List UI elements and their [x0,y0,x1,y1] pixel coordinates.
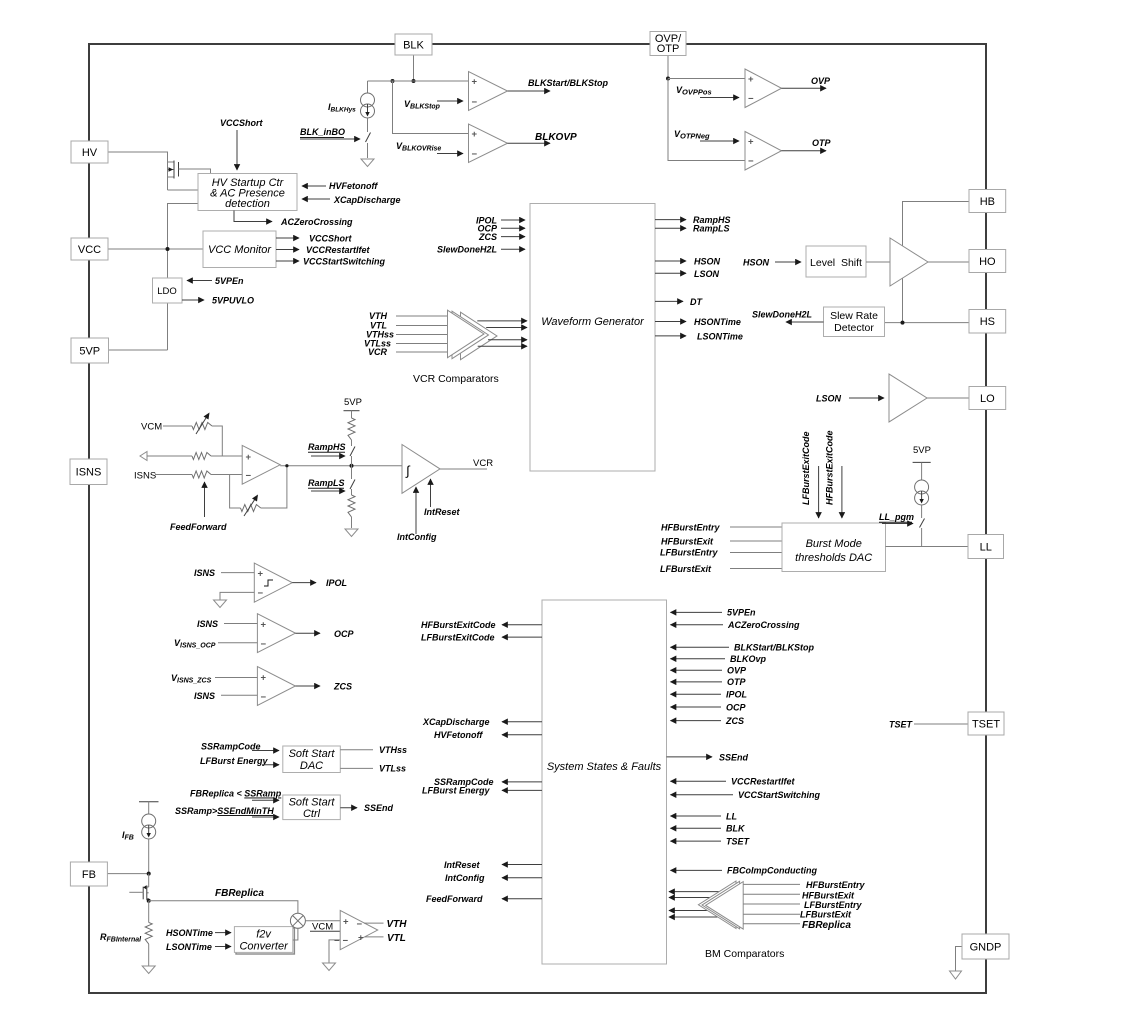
VCR comparator outputs to waveform generator [477,321,527,346]
svg-text:OCP: OCP [334,629,355,639]
svg-text:Soft Start: Soft Start [289,748,336,760]
resistor upper divider [348,418,355,440]
wire IPOL minus to ground [220,592,254,600]
wire FBReplica to multiplier [149,888,298,913]
pin 5VP [71,338,109,363]
svg-text:5VP: 5VP [344,397,362,408]
input LFBurstExit to DAC [660,564,782,574]
input FBCoImpConducting (right) [671,866,818,876]
input FBReplica < SSRamp [190,789,282,801]
ground GNDP [950,971,962,979]
input LFBurst Energy [200,756,279,766]
pin OVP/OTP [650,32,686,56]
svg-text:−: − [258,588,264,599]
svg-text:Waveform Generator: Waveform Generator [541,316,645,328]
output XCapDischarge (left) [422,717,542,727]
resistor VCM (variable) [192,413,212,435]
label LSON to LO driver [816,394,884,404]
svg-text:HFBurstExit: HFBurstExit [661,537,714,547]
svg-text:DAC: DAC [300,760,323,772]
input SlewDoneH2L [437,245,525,255]
svg-text:RampLS: RampLS [308,478,345,488]
svg-text:OTP: OTP [657,43,680,55]
wire multiplier to VTH/VTL amp [305,920,340,922]
block LDO [153,278,183,303]
node FBReplica [147,899,151,903]
svg-text:VCR: VCR [368,347,388,357]
svg-text:LFBurstExitCode: LFBurstExitCode [801,431,811,505]
output FeedForward (left) [426,894,542,904]
BM comparator outputs to system block [669,892,738,917]
ground (R_FBinternal) [142,966,155,974]
label ISNS net [134,471,156,482]
svg-text:VOVPPos: VOVPPos [676,85,712,97]
svg-text:IntConfig: IntConfig [445,873,485,883]
amp VTH/VTL [334,910,378,949]
label VCM [141,422,162,433]
input LFBurstEntry to DAC [660,548,782,558]
svg-text:ISNS: ISNS [194,568,215,578]
BM comparator input FBReplica [743,920,851,931]
svg-text:VOTPNeg: VOTPNeg [674,129,710,141]
svg-text:FB: FB [82,869,96,881]
label V_OTPNeg with arrow [674,129,739,141]
svg-text:HV: HV [82,147,98,159]
svg-text:IntReset: IntReset [424,507,461,517]
input OTP (right) [671,677,747,687]
svg-text:Slew Rate: Slew Rate [830,310,878,322]
svg-text:FBCoImpConducting: FBCoImpConducting [727,866,817,876]
label LFBurstExitCode vertical arrow into DAC [801,431,819,518]
rail bar FB current source [139,802,159,814]
output RampHS [655,215,731,225]
svg-text:OTP: OTP [812,138,831,148]
input LSONTime [166,942,231,952]
svg-text:VCCShort: VCCShort [309,234,353,244]
wire HV pin to transistor [108,152,168,162]
svg-text:5VPEn: 5VPEn [215,276,244,286]
wire driver to HB [903,202,970,246]
BM comparator input LFBurstExit [743,909,852,919]
wire node to OVP comparator plus [668,78,745,80]
output OCP [295,629,354,639]
pin BLK [395,34,432,55]
switch BLK_inBO [366,133,371,159]
VCR comparator input VCR [368,347,460,357]
svg-text:VTHss: VTHss [379,745,407,755]
block Waveform Generator [530,204,655,472]
block Level Shift [806,246,866,277]
svg-text:LSONTime: LSONTime [166,942,212,952]
label 5VP rail (LL) [913,445,931,462]
svg-text:ISNS: ISNS [134,471,156,482]
svg-text:ACZeroCrossing: ACZeroCrossing [280,217,353,227]
block VCC Monitor [203,231,276,268]
input BLK (right) [671,824,746,834]
wire f2v to multiplier [293,928,298,940]
VCR comparator input VTHss [366,330,460,340]
svg-text:BLKOvp: BLKOvp [730,654,767,664]
input ZCS [478,232,525,242]
svg-text:5VP: 5VP [79,345,100,357]
svg-text:Burst Mode: Burst Mode [806,538,862,550]
wire BLK node down to BLKOVP comparator [393,81,469,134]
svg-text:HSON: HSON [694,257,721,267]
block System States & Faults [542,600,667,964]
input HFBurstEntry to DAC [661,523,782,533]
pin VCC [71,238,108,260]
svg-text:−: − [334,935,340,946]
svg-text:BLK: BLK [403,39,424,51]
svg-text:ISNS: ISNS [194,691,215,701]
output SSEnd [667,752,749,762]
svg-text:BLKOVP: BLKOVP [535,132,577,143]
svg-text:VCCRestartIfet: VCCRestartIfet [731,777,796,787]
wire level shift to driver [866,261,890,263]
current source I_FB [122,814,156,842]
svg-text:LO: LO [980,393,995,405]
svg-text:−: − [261,692,267,703]
output VTLss [340,764,406,774]
input OCP (right) [671,702,747,712]
output SSRampCode (left) [434,777,542,787]
output OVP [782,76,832,88]
svg-text:LL_pgm: LL_pgm [879,512,914,522]
svg-text:SlewDoneH2L: SlewDoneH2L [437,245,497,255]
switch LL_pgm [920,505,925,547]
label 5VP rail (ramp divider) [344,397,362,411]
output HFBurstExitCode (left) [421,620,542,630]
svg-text:LFBurstEntry: LFBurstEntry [660,548,718,558]
pin TSET [968,712,1004,735]
svg-text:BLK_inBO: BLK_inBO [300,127,345,137]
transistor Q1 HV FET [168,161,211,191]
output IntConfig (left) [445,873,542,883]
svg-text:VTH: VTH [387,919,408,930]
VCR comparator input VTH [369,311,460,321]
svg-text:Detector: Detector [834,322,874,334]
output ZCS [295,682,352,692]
svg-text:RampHS: RampHS [308,442,346,452]
op-amp U_ISNS [242,445,280,484]
svg-text:SSEnd: SSEnd [364,803,394,813]
input ZCS (right) [671,716,745,726]
pin FB [70,862,107,886]
block Soft Start DAC [283,746,341,773]
svg-text:LSONTime: LSONTime [697,331,743,341]
output HSON [655,257,721,267]
pin HO [969,250,1006,273]
pin HS [969,310,1006,334]
label 5VPEn input to LDO [187,276,244,286]
ground (BLK divider) [361,159,374,167]
output IPOL [292,578,347,588]
wire to current source [367,81,369,93]
input HSONTime [166,928,231,938]
svg-text:HFBurstEntry: HFBurstEntry [661,523,720,533]
svg-text:BLKStart/BLKStop: BLKStart/BLKStop [734,643,814,653]
label V_ISNS_OCP to OCP minus [174,638,257,650]
input ACZeroCrossing (right) [671,620,801,630]
svg-text:FeedForward: FeedForward [426,894,483,904]
output VCR [440,458,493,469]
wire ISNS to resistor [155,474,192,476]
BM comparator input HFBurstExit [743,891,855,901]
svg-text:LDO: LDO [157,286,177,297]
svg-text:+: + [258,569,264,580]
block f2v Converter [234,927,294,954]
svg-text:−: − [343,935,349,946]
wire 5VP pin to rail [109,349,168,351]
switch RampLS [350,466,355,495]
wire VCC pin to monitor [108,247,203,251]
label ISNS to OCP plus [197,619,257,629]
svg-text:+: + [748,74,754,85]
comparator BLKOVP [469,124,508,163]
svg-text:+: + [343,917,349,928]
svg-text:−: − [261,639,267,650]
svg-text:SSRampCode: SSRampCode [201,742,261,752]
svg-text:ZCS: ZCS [333,682,352,692]
label VCM input [310,922,340,933]
svg-text:VCM: VCM [141,422,162,433]
svg-text:LFBurstExit: LFBurstExit [660,564,712,574]
output OTP [782,138,832,151]
svg-text:5VP: 5VP [913,445,931,456]
input TSET (right) [671,836,751,846]
svg-text:ISNS: ISNS [197,619,218,629]
input BLKOvp (right) [671,654,767,664]
wire transistor to HV Startup block [168,189,199,191]
svg-text:−: − [472,149,478,160]
pin LO [969,387,1006,410]
svg-text:IPOL: IPOL [326,578,347,588]
pin GNDP [962,934,1009,959]
BM comparator input HFBurstEntry [743,880,865,890]
output VCCRestartIfet [276,245,371,255]
svg-text:5VPUVLO: 5VPUVLO [212,296,254,306]
wire driver to HO [928,261,969,263]
wire node to OTP comparator minus [668,79,745,161]
svg-text:FBReplica: FBReplica [802,920,851,931]
current source I_BLKHys [328,93,375,118]
block Soft Start Ctrl [283,795,341,820]
output VTHss [340,745,407,755]
wire VCM to resistor [163,425,192,427]
integrator U_int [402,445,440,494]
svg-text:LFBurstExitCode: LFBurstExitCode [421,632,495,642]
input OVP (right) [671,666,748,676]
comparator OCP [257,614,295,653]
label IntConfig arrow [397,487,437,542]
wire amp minus to ground [329,940,340,963]
output SSEnd (soft start ctrl) [340,803,393,813]
wire resistor to opamp minus [211,474,242,476]
svg-text:SlewDoneH2L: SlewDoneH2L [752,310,812,320]
svg-text:FBReplica < SSRamp: FBReplica < SSRamp [190,789,282,799]
output IntReset (left) [444,860,542,870]
svg-text:XCapDischarge: XCapDischarge [333,195,401,205]
svg-text:VCR Comparators: VCR Comparators [413,373,499,385]
wire current source to FB node [148,839,150,874]
label HFBurstExitCode vertical arrow into DAC [825,430,842,518]
svg-text:VCCStartSwitching: VCCStartSwitching [738,790,821,800]
svg-text:Level Shift: Level Shift [810,257,862,269]
block Burst Mode thresholds DAC [782,523,886,572]
svg-text:HSONTime: HSONTime [166,928,213,938]
svg-text:IntConfig: IntConfig [397,532,437,542]
svg-text:LSON: LSON [816,394,842,404]
resistor ISNS input [192,471,211,478]
output VTL [365,933,406,944]
svg-text:HS: HS [980,316,995,328]
output 5VPUVLO [182,296,254,306]
svg-text:FBReplica: FBReplica [215,888,264,899]
svg-text:HFBurstExitCode: HFBurstExitCode [825,430,835,505]
comparator IPOL [254,563,292,602]
input SSRamp>SSEndMinTH [175,806,279,817]
transistor Q2 FB replica [129,874,148,901]
wire opamp output [280,464,402,468]
svg-text:Converter: Converter [239,941,289,953]
input IPOL (right) [671,690,748,700]
svg-text:DT: DT [690,297,703,307]
resistor lower divider [348,495,355,528]
driver LO buffer [889,374,927,422]
svg-text:ACZeroCrossing: ACZeroCrossing [727,620,800,630]
svg-text:OVP: OVP [727,666,747,676]
output HSONTime [655,317,741,327]
pin HV [71,141,108,163]
comparator bank BM Comparators [698,881,784,960]
svg-text:VTLss: VTLss [379,764,406,774]
node BLK net [391,79,416,83]
open arrow out (left) [140,452,147,461]
resistor (plus input) [192,453,211,460]
svg-text:−: − [748,156,754,167]
comparator OTP [745,132,782,171]
svg-text:+: + [472,77,478,88]
resistor R_FBinternal [100,901,152,966]
svg-text:OVP: OVP [811,76,831,86]
svg-text:SSEnd: SSEnd [719,752,749,762]
output VCCShort [276,234,353,244]
pin LL [968,535,1004,559]
VCR comparator input VTL [370,321,460,331]
wire HS to slew rate detector [885,321,970,325]
svg-text:+: + [358,933,364,944]
svg-text:VCC Monitor: VCC Monitor [208,244,272,256]
wire BLK pin to node [413,55,415,81]
svg-text:+: + [748,137,754,148]
svg-text:GNDP: GNDP [970,941,1002,953]
label BLK_inBO [300,127,360,139]
label V_ISNS_ZCS to ZCS plus [171,673,257,685]
VCR comparator input VTLss [364,339,460,349]
pin HB [969,190,1006,213]
svg-text:−: − [357,919,363,930]
svg-text:LFBurst Energy: LFBurst Energy [422,786,491,796]
wire 5VP to current source [921,462,923,480]
svg-text:detection: detection [225,198,270,210]
svg-text:BLK: BLK [726,824,746,834]
wire FB pin to node [107,872,150,876]
label TSET external [889,720,968,730]
svg-text:Ctrl: Ctrl [303,808,321,820]
svg-text:−: − [472,97,478,108]
svg-text:TSET: TSET [972,718,1000,730]
label HVFetonoff input [302,181,378,191]
svg-text:HVFetonoff: HVFetonoff [434,730,483,740]
svg-text:TSET: TSET [889,720,914,730]
block HV Startup Ctr & AC Presence detection [198,174,297,211]
svg-text:ZCS: ZCS [725,716,744,726]
svg-text:+: + [246,452,252,463]
svg-text:OTP: OTP [727,677,746,687]
driver HO buffer [890,238,928,286]
svg-text:VCCRestartIfet: VCCRestartIfet [306,245,371,255]
output DT [655,297,703,307]
BM comparator input LFBurstEntry [743,900,862,910]
svg-text:IntReset: IntReset [444,860,481,870]
svg-text:VCC: VCC [78,244,101,256]
svg-text:HB: HB [980,196,995,208]
wire current source to switch [367,118,369,132]
ground (IPOL) [214,600,227,608]
wire GNDP to ground [956,947,963,972]
comparator bank VCR Comparators [413,310,499,385]
svg-text:+: + [261,673,267,684]
svg-text:RampLS: RampLS [693,224,730,234]
label V_BLKStop with arrow to minus input [404,99,463,111]
svg-text:VTH: VTH [369,311,388,321]
wire BLK node to comparator [368,80,469,82]
output BLKOVP [508,132,578,143]
comparator ZCS [257,667,295,706]
svg-text:ISNS: ISNS [76,467,102,479]
input LL (right) [671,811,738,821]
label FeedForward arrow [170,482,227,532]
svg-text:+: + [472,129,478,140]
svg-text:IPOL: IPOL [726,690,747,700]
output VCCStartSwitching [276,257,386,267]
svg-text:LFBurstExit: LFBurstExit [800,909,852,919]
svg-text:HSONTime: HSONTime [694,317,741,327]
svg-text:HFBurstExitCode: HFBurstExitCode [421,620,496,630]
label RampLS [308,478,345,491]
wire resistor to opamp plus [211,455,242,457]
input SSRampCode [201,742,279,752]
svg-text:ZCS: ZCS [478,232,497,242]
block Slew Rate Detector [824,307,885,337]
svg-text:f2v: f2v [256,929,272,941]
svg-text:FeedForward: FeedForward [170,522,227,532]
svg-text:5VPEn: 5VPEn [727,608,756,618]
label HSON to level shift [743,258,801,268]
ground (VTH/VTL amp) [323,963,336,971]
svg-text:Soft Start: Soft Start [289,797,336,809]
svg-text:+: + [261,620,267,631]
svg-text:HVFetonoff: HVFetonoff [329,181,378,191]
output LSONTime [655,331,743,341]
svg-text:VCCShort: VCCShort [220,118,264,128]
label VCCShort input arrow [220,118,264,170]
svg-text:HO: HO [979,256,996,268]
label XCapDischarge input [302,195,401,205]
output LFBurstExitCode (left) [421,632,542,642]
label RampHS [308,442,346,456]
svg-text:OCP: OCP [726,702,747,712]
